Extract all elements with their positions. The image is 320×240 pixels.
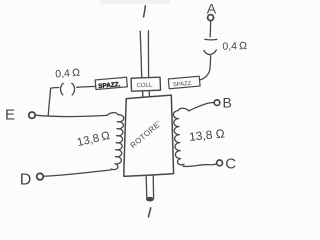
commutator box COLL <box>131 77 160 91</box>
brush box left <box>95 77 127 89</box>
wire: contact down to E node <box>48 88 50 114</box>
terminal B circle <box>214 100 220 106</box>
terminal D circle <box>37 173 44 180</box>
contact symbol left 0,4 ohm <box>51 87 59 90</box>
wire: right brush box to contact A <box>200 56 210 80</box>
terminal C circle <box>217 160 223 166</box>
terminal E circle <box>29 112 35 118</box>
paper background <box>0 0 260 234</box>
stator coil left 13,8 ohm <box>107 113 124 170</box>
terminal A circle <box>208 15 214 21</box>
svg-text:B: B <box>223 95 232 111</box>
wire: A terminal down to contact <box>209 21 212 37</box>
shaft stubs below commutator <box>142 91 144 97</box>
shaft upper section <box>140 31 142 77</box>
shaft end blob <box>146 197 154 202</box>
wire: E terminal to left coil <box>36 115 107 116</box>
shaft axis tick bottom <box>148 208 150 217</box>
wire: left contact to left brush box <box>77 85 96 88</box>
svg-text:COLL.: COLL. <box>136 82 154 89</box>
rotor box <box>124 95 174 176</box>
contact symbol right 0,4 ohm <box>205 38 217 41</box>
brush box right <box>168 76 200 88</box>
svg-text:C: C <box>225 156 236 173</box>
svg-text:E: E <box>5 106 15 123</box>
wire: D terminal to coil bottom <box>44 170 111 176</box>
svg-text:0,4 Ω: 0,4 Ω <box>222 40 247 53</box>
wire: coil bottom to C terminal <box>183 164 217 167</box>
svg-text:0,4 Ω: 0,4 Ω <box>55 67 81 81</box>
wire: coil top to B terminal <box>189 103 215 111</box>
shaft axis tick top <box>144 6 146 17</box>
shaft lower section <box>145 176 148 199</box>
stator coil right 13,8 ohm <box>173 108 188 165</box>
svg-text:A: A <box>207 0 217 16</box>
svg-text:D: D <box>20 172 32 189</box>
